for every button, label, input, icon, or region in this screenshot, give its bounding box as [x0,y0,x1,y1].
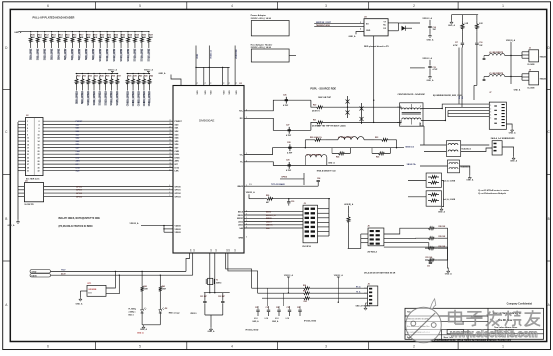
svg-text:49.9R 1%: 49.9R 1% [312,109,320,112]
svg-text:5u4_A_0.0KB: 5u4_A_0.0KB [443,180,456,183]
wire J4 pin 2 to U1 GPIO1 [18,189,24,191]
transformer T1 core [402,112,421,114]
svg-text:SD1_JP52: SD1_JP52 [36,48,39,60]
wire J2 pin 20 to U1 CMD [18,150,26,152]
svg-text:30: 30 [169,136,171,138]
svg-text:SD14_JP52: SD14_JP52 [127,48,130,62]
svg-text:SD15_JP52: SD15_JP52 [134,48,137,62]
svg-text:VDD33_A: VDD33_A [209,50,212,59]
svg-text:CMD: CMD [76,151,81,153]
ground GND_A RT1 [79,297,81,299]
svg-text:J9: J9 [529,69,531,71]
svg-text:16: 16 [38,144,40,146]
svg-text:C16: C16 [479,42,482,44]
wire LED P5 vertical [373,36,375,122]
svg-text:GND_A: GND_A [445,272,453,275]
net label pull-up 2 [44,49,46,58]
svg-text:SD17_JP52: SD17_JP52 [148,48,151,62]
svg-text:AEN: AEN [175,160,180,163]
svg-text:L3 10UH FERRITE: L3 10UH FERRITE [338,137,354,139]
capacitor C26 on RX+ [285,97,287,100]
resistor R35 [105,73,106,74]
svg-text:1 9: 1 9 [249,184,251,186]
svg-text:1: 1 [502,4,504,8]
wire crystal bottom bracket [204,292,230,294]
jumper JP1 pill [30,270,51,273]
svg-text:3: 3 [325,344,327,348]
net label grp1 0 [76,91,78,103]
wires J5 left stubs [364,287,368,289]
junction dots T1 right [442,108,443,109]
svg-text:LED2: LED2 [238,221,243,223]
svg-text:NrAmBmd: NrAmBmd [462,148,472,151]
net label grp2 3 [143,91,145,103]
capacitor C15 [428,65,431,67]
resistor R16 pull-up [72,31,73,32]
svg-text:EECS: EECS [266,212,272,214]
wire LED line2 [51,274,193,276]
resistor R12 pull-up [44,31,45,32]
svg-text:34: 34 [169,150,171,152]
svg-text:HRGREB: HRGREB [89,289,97,291]
resistor R41 [143,73,144,74]
svg-text:VDD: VDD [236,90,238,95]
svg-text:R41: R41 [144,75,147,78]
svg-text:R35: R35 [303,290,306,292]
net label pull-up 17 [148,49,150,58]
wire J2 pin 10 to U1 SD3 [18,133,26,135]
net label grp1 6 [111,91,113,103]
svg-text:GND_A: GND_A [349,35,357,38]
svg-text:LED2 Y: LED2 Y [266,221,273,223]
svg-text:28: 28 [169,130,171,132]
inductor L2 ferrite [489,54,505,56]
svg-text:4.7NF: 4.7NF [287,151,293,154]
svg-text:2: 2 [490,108,491,110]
IC U1 DM9000AE body [173,86,244,254]
svg-text:11: 11 [27,138,29,140]
wire J2 pin 30 to U1 IO16 [18,166,26,168]
svg-text:SD2: SD2 [76,131,80,133]
net label grp1 7 [116,91,118,103]
net label pull-up 6 [72,49,74,58]
svg-text:VDD1: VDD1 [197,54,199,59]
svg-text:9: 9 [205,83,207,84]
capacitor C17 [461,42,464,44]
capacitor C30 [288,199,290,202]
svg-text:VDD: VDD [224,90,226,95]
svg-text:GND_A: GND_A [426,38,434,41]
svg-text:GPIO0: GPIO0 [76,186,82,188]
ground GND_A term network [447,269,449,271]
wires J3 right to bus [318,208,330,210]
svg-text:VDDIO: VDDIO [175,229,182,231]
svg-text:SD13_JP52: SD13_JP52 [120,48,123,62]
svg-text:TX-: TX- [240,162,243,164]
svg-text:4.7NF: 4.7NF [283,104,289,107]
svg-text:GND_A: GND_A [75,303,83,306]
svg-text:R36: R36 [304,301,307,303]
svg-text:R31: R31 [83,76,86,78]
svg-text:R38: R38 [128,76,131,78]
wires J6 left stubs [361,233,368,235]
svg-text:VDD2.5: VDD2.5 [190,313,196,315]
connector J6 pin pads [370,230,374,232]
wire U1 top pin tall x196.0 [195,46,197,68]
svg-text:14: 14 [38,140,40,143]
svg-text:R40: R40 [139,75,142,78]
power VDD33_A uart1 [287,277,289,279]
svg-text:RED orange: RED orange [169,312,180,314]
choke L6 body [448,160,460,173]
resistor R28 term [425,227,437,230]
svg-text:DL-NDB: DL-NDB [528,87,536,89]
svg-text:GPIO3: GPIO3 [76,196,82,198]
svg-text:2) net 25dxwthrower Bodprbt: 2) net 25dxwthrower Bodprbt [478,192,506,195]
svg-text:www.elecfans.com: www.elecfans.com [449,329,538,340]
wire J3 right vertical bus [328,198,330,236]
wire U1 bottom pins UART bends [226,253,252,288]
resistor R26 pull-up [141,31,142,32]
svg-text:CMD: CMD [175,151,180,153]
capacitor C31 term [429,260,431,262]
svg-text:EEDIO: EEDIO [237,218,243,220]
svg-text:4: 4 [231,344,233,348]
resistor R37 [117,73,118,74]
svg-text:GND_A: GND_A [140,328,148,331]
svg-text:CMD4_JP52X: CMD4_JP52X [148,91,151,107]
wire top tie bracket [452,14,479,16]
resistor R24 second branch left [331,148,333,154]
wire VDD pullup row [248,194,250,199]
svg-text:R32: R32 [88,76,91,78]
svg-text:29: 29 [27,167,29,169]
wire U1 top pin tall x209.3 [208,46,210,68]
connector J7 pin dashes [502,104,505,105]
net label grp1 5 [105,91,107,103]
power VDD33C_A uart2 [337,277,339,279]
svg-text:SD0_JP52: SD0_JP52 [30,48,33,60]
wire R33 down [476,32,478,43]
svg-text:C27: C27 [286,125,289,127]
capacitor C18 left of L2 [484,55,489,57]
net label grp2 1 [132,91,134,103]
svg-text:9: 9 [197,83,199,84]
wire J2 pin 8 to U1 SD2 [18,130,26,132]
svg-text:27: 27 [169,127,171,129]
svg-text:R37: R37 [117,76,120,78]
net label grp1 2 [87,91,89,103]
svg-text:4: 4 [490,115,491,117]
box Host Adapter Header [251,49,289,62]
resistor R20 pull-up [100,31,101,32]
svg-text:RX-: RX- [240,118,244,120]
svg-text:SA9: SA9 [239,227,243,230]
wire vdd cap2 [429,60,431,66]
net label pull-up 12 [113,49,115,58]
ground GND_A leds [143,324,145,326]
net label pull-up 7 [78,49,80,58]
svg-text:VDD(3)_A: VDD(3)_A [506,39,516,42]
svg-text:7: 7 [27,131,28,133]
svg-text:SA9: SA9 [266,227,270,230]
svg-text:RD-: RD- [462,96,464,99]
svg-text:R36: R36 [112,76,115,78]
wire crystal pins down [209,253,211,293]
net label pull-up 11 [106,49,108,58]
svg-text:R42: R42 [144,285,147,288]
svg-text:5: 5 [27,128,28,130]
svg-text:C21 22P: C21 22P [200,296,208,298]
svg-text:R34: R34 [303,284,306,287]
svg-text:SD12_JP52X: SD12_JP52X [99,91,102,106]
svg-text:13: 13 [27,141,29,143]
resistor R34 [99,73,100,74]
svg-text:2: 2 [39,121,40,123]
wire host adapter out [289,55,296,57]
wire RX- from U1 [244,118,311,130]
watermark char 电 [449,310,463,324]
capacitor C19 left of L7 [484,76,489,78]
svg-text:R33: R33 [94,76,97,78]
svg-text:GND_A: GND_A [159,72,167,75]
wire RT1 left to gnd [80,290,87,292]
svg-text:C36: C36 [297,307,300,309]
wires UART rows [252,287,301,289]
zone ticks bottom [95,342,97,350]
wire led common [142,324,160,326]
net label pull-up 1 [37,49,39,58]
svg-text:VDDIO: VDDIO [175,226,182,228]
svg-text:R25: R25 [376,157,379,159]
wires choke L6 [420,165,448,167]
connector J6 SW body [368,228,384,246]
capacitor C33 [268,306,270,310]
svg-text:3: 3 [27,125,28,127]
resistor R27 vertical [347,214,350,225]
svg-text:POPL - SOURCE RDE: POPL - SOURCE RDE [310,87,336,90]
svg-text:EECS: EECS [238,212,244,214]
ground GND_A cap2 [429,75,431,77]
wires T1 right pins to RJ45 [421,104,489,108]
svg-text:R42: R42 [150,75,153,78]
wires J6 right staircase [384,228,425,234]
wire RJ45 right to gnd [506,124,512,128]
svg-text:4.7NF: 4.7NF [286,169,292,172]
net label pull-up 15 [134,49,136,58]
wire J2 pin 16 to U1 SD6 [18,143,26,145]
svg-text:GPIO1: GPIO1 [175,190,182,192]
svg-text:230VDC +05V-@ 1A 2A: 230VDC +05V-@ 1A 2A [251,46,272,49]
svg-text:Company Confidential: Company Confidential [507,302,533,305]
resistor R19 pull-up [93,31,94,32]
svg-text:SLOW PD: SLOW PD [24,204,34,206]
wires U3 outputs [388,22,398,24]
wire J2 pin 18 to U1 SD7 [18,147,26,149]
wire U1 top power tie [196,66,230,68]
resistor R20 RX+ series [313,106,326,109]
svg-text:30: 30 [38,167,40,169]
wire pull-up bus [18,31,148,33]
svg-text:R26: R26 [266,195,269,197]
net label pull-up 14 [127,49,129,58]
svg-text:CMD1_JP52X: CMD1_JP52X [132,91,135,107]
svg-text:9: 9 [224,83,226,84]
svg-text:4: 4 [39,124,40,127]
svg-text:25: 25 [169,120,171,122]
svg-text:23: 23 [27,158,29,160]
watermark circle tail [430,299,436,309]
connector J3 body [303,205,318,243]
title block column lines [487,308,489,339]
wire term common to gnd [437,228,448,269]
svg-text:SD9_JP52X: SD9_JP52X [81,91,84,105]
resistor R31 [82,73,83,74]
wire U3 out to VDD [403,22,420,24]
svg-text:SD3_JP52: SD3_JP52 [50,48,53,60]
diode D3 dual clamp [347,96,349,118]
ground GND_A crystal [210,327,212,329]
svg-text:3: 3 [360,22,361,24]
resistor R18 pull-up [86,31,87,32]
ground GND_A left bus [17,220,19,222]
svg-text:IP3160-2 ESD: IP3160-2 ESD [304,321,317,323]
resistor R38 [127,73,128,74]
wire J4 pin 1 to U1 GPIO0 [18,186,24,188]
wire VDD33C stub uart2 [337,279,339,302]
resistor R29 term [425,237,437,240]
wire LED line1 [51,270,187,272]
svg-text:BG0.1: BG0.1 [129,315,134,317]
net label pull-up 13 [120,49,122,58]
resistor R32 [88,73,89,74]
resistor R35 series [301,292,313,295]
wires T1 left pins [397,106,402,108]
resistor R36 series [301,297,313,300]
wire crystal bottom join [205,314,223,316]
svg-text:6: 6 [47,344,49,348]
svg-text:186F HB THP: 186F HB THP [318,97,332,99]
resistor R25 pull-up [134,31,135,32]
svg-text:6: 6 [400,124,401,126]
net label grp1 4 [99,91,101,103]
svg-text:38: 38 [169,163,171,165]
watermark char 烧 [505,311,521,326]
svg-text:GPIO1: GPIO1 [76,190,82,192]
svg-text:40: 40 [169,169,171,171]
svg-text:SD15_JP52X: SD15_JP52X [116,91,119,106]
component RT1 body [87,285,106,296]
svg-text:IOW: IOW [76,157,80,159]
svg-text:5: 5 [139,344,141,348]
svg-text:GND_A: GND_A [14,31,22,34]
resistor R13 pull-up [51,31,52,32]
svg-text:26: 26 [38,161,40,163]
svg-text:L7 2.NB FERRITE: L7 2.NB FERRITE [489,73,504,75]
svg-text:SD8_JP52: SD8_JP52 [85,48,88,60]
watermark pivot circles [411,321,416,326]
svg-text:C29: C29 [286,160,289,162]
svg-text:SD11_JP52: SD11_JP52 [106,48,109,61]
svg-text:EECK E_IO: EECK E_IO [266,215,276,217]
svg-text:VDD33_A: VDD33_A [108,69,118,72]
svg-text:18: 18 [38,148,40,150]
svg-text:WRB: WRB [238,238,243,240]
wire J4 pin 4 to U1 GPIO3 [18,195,24,197]
svg-text:C22 22P: C22 22P [218,296,226,298]
svg-text:DM9000AE: DM9000AE [199,119,214,123]
resistor R31 term [425,259,437,262]
svg-text:2) net 25 4TRnB center is cent: 2) net 25 4TRnB center is center [478,189,509,192]
wires RT1 right up to LED lines [106,271,115,288]
svg-text:SD5_JP52: SD5_JP52 [64,48,67,60]
ground GND cap1 [429,34,431,36]
svg-text:1NF: 1NF [479,45,482,47]
svg-text:5: 5 [139,4,141,8]
wire RP1 left [408,180,426,182]
svg-text:2W KB3-4: 2W KB3-4 [367,251,377,254]
svg-text:25: 25 [27,161,29,163]
connector J7 RJ45 body [489,102,506,129]
svg-text:SD4_JP52: SD4_JP52 [57,48,60,60]
power symbol VDD33_A group2 [147,72,149,74]
diode D1 led [141,308,143,310]
svg-text:CMD2_JP52X: CMD2_JP52X [137,91,140,107]
wires U1 to J3 [244,211,303,213]
svg-text:GND_A: GND_A [438,210,446,213]
svg-text:VDD3.3_A: VDD3.3_A [422,17,432,20]
svg-text:C26: C26 [283,95,286,97]
svg-text:4.7NF: 4.7NF [286,134,292,137]
svg-text:R39: R39 [133,76,136,78]
net label grp2 2 [138,91,140,103]
svg-text:26: 26 [169,123,171,125]
net label grp2 0 [127,91,129,103]
svg-text:GND_A: GND_A [466,179,474,182]
wire TX+ upper branch bracket [304,140,306,148]
svg-text:28: 28 [38,164,40,166]
wire vdd pull-up bus group2 [127,73,150,75]
svg-text:LED1 G: LED1 G [266,225,273,227]
zone ticks top [95,2,97,10]
wire T1 lower to choke bracket [423,126,425,145]
terminator RP2 body [426,191,441,206]
svg-text:SD7_JP52: SD7_JP52 [78,48,81,60]
svg-text:SD6: SD6 [76,144,80,146]
resistor R42 [149,73,150,74]
capacitor C32 [257,306,259,310]
svg-text:SERP NE_COMT: SERP NE_COMT [316,22,332,24]
svg-text:EEDIO: EEDIO [266,218,272,220]
jumper JP2 pill [30,274,51,277]
resistor R22 TX upper [309,138,326,141]
svg-text:GPIO6: GPIO6 [281,177,287,179]
svg-text:39: 39 [169,166,171,168]
svg-text:SD0: SD0 [76,124,80,126]
svg-text:PULL-UP PLATED HEAD HEADER: PULL-UP PLATED HEAD HEADER [33,16,75,20]
svg-text:VDD33_A: VDD33_A [284,274,294,277]
svg-text:PWRST: PWRST [175,121,183,123]
wires J9 pins [522,73,529,75]
svg-text:VDDIO: VDDIO [175,232,182,234]
svg-text:GND_A: GND_A [272,320,279,323]
wire J2 pin 26 to U1 AEN [18,160,26,162]
svg-text:330R: 330R [162,289,167,291]
inductor L3 ferrite [338,137,364,140]
watermark char 发 [486,311,502,326]
svg-text:SD8_JP52X: SD8_JP52X [75,91,78,105]
svg-text:C24: C24 [317,177,320,180]
